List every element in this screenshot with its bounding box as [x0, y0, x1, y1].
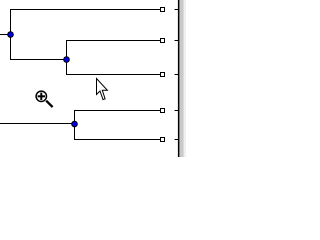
node 3 blue dot [72, 121, 78, 127]
tick leaf2 [175, 40, 179, 42]
leaf square 5 [161, 138, 165, 142]
wire leaf4 horizontal [74, 110, 161, 112]
wire node3 vertical [74, 110, 76, 140]
leaf square 4 [161, 109, 165, 113]
wire root vertical [10, 9, 12, 60]
wire leaf2 horizontal [66, 40, 161, 42]
node 2 blue dot [64, 57, 70, 63]
wire root stub [0, 34, 11, 36]
wire leaf5 horizontal [74, 139, 161, 141]
tick leaf3 [175, 74, 179, 76]
axis line [178, 0, 180, 157]
tick leaf5 [175, 139, 179, 141]
scrollbar gray strip [179, 0, 183, 157]
magnifier zoom icon [36, 91, 53, 107]
wire leaf3 horizontal [66, 74, 161, 76]
wire leaf1 horizontal [10, 9, 161, 11]
wire node2 vertical [66, 40, 68, 75]
node 1 blue dot [8, 32, 14, 38]
tick leaf1 [175, 9, 179, 11]
arrow cursor [97, 79, 108, 100]
leaf square 3 [161, 73, 165, 77]
wire root bottom branch [10, 59, 67, 61]
wire bottom stub [0, 123, 75, 125]
tick leaf4 [175, 110, 179, 112]
leaf square 1 [161, 8, 165, 12]
leaf square 2 [161, 39, 165, 43]
scrollbar light edge [184, 0, 186, 157]
